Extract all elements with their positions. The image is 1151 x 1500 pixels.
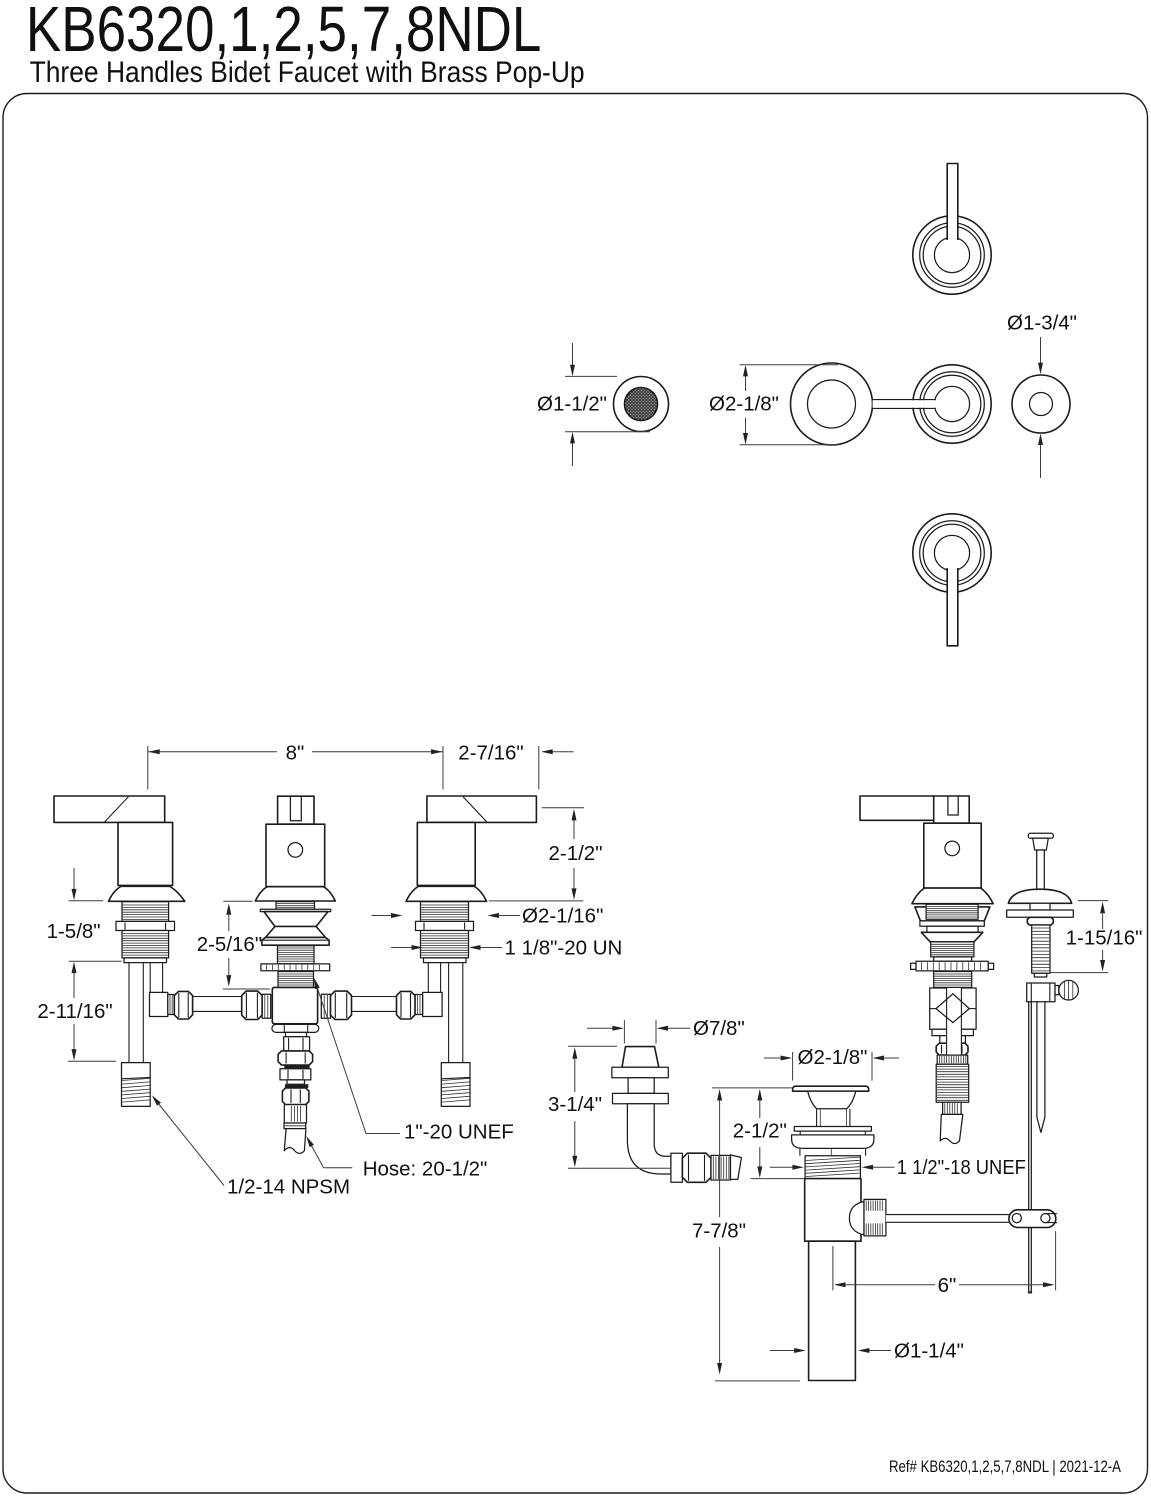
center threads below bell	[276, 902, 315, 910]
lift rod escutcheon plate	[1007, 910, 1074, 917]
svg-text:Ø1-3/4": Ø1-3/4"	[1007, 312, 1077, 335]
center cone upper	[264, 912, 328, 927]
detail slotted flange with tabs	[911, 963, 916, 969]
svg-text:Three Handles Bidet Faucet wit: Three Handles Bidet Faucet with Brass Po…	[30, 56, 585, 89]
left compression nut	[174, 991, 192, 1019]
top view: deck hole Ø1-3/4 ring	[1012, 375, 1070, 433]
dimension 2-1/2 right handle	[542, 807, 584, 809]
gasket ring dark 2	[285, 1084, 308, 1088]
coupling neck	[287, 1080, 305, 1084]
dimension 7-7/8	[717, 1089, 722, 1101]
left handle side outlet tube	[149, 963, 151, 993]
left handle lever	[54, 796, 165, 822]
detail washer	[920, 921, 984, 926]
drain threads 1-1/2-18	[805, 1156, 860, 1179]
pivot rod horizontal	[886, 1215, 1010, 1223]
svg-text:1 1/2"-18 UNEF: 1 1/2"-18 UNEF	[897, 1156, 1026, 1179]
svg-text:Ø2-1/16": Ø2-1/16"	[522, 905, 603, 928]
detail handle body	[924, 823, 981, 888]
tee body	[272, 987, 317, 1023]
drain neck	[799, 1148, 801, 1155]
top view: top handle (plan)	[913, 216, 991, 294]
dimension 8 inch	[147, 746, 149, 790]
drain knurled nut	[864, 1199, 886, 1236]
hose nut lower	[282, 1088, 309, 1105]
elbow hex nut	[682, 1153, 711, 1182]
detail knurled tip	[943, 1102, 962, 1114]
left handle elbow block	[150, 992, 168, 1016]
svg-text:2-7/16": 2-7/16"	[458, 742, 523, 765]
gasket ring dark	[284, 1065, 309, 1069]
right handle bell flange	[406, 886, 487, 901]
center valve body	[266, 824, 325, 887]
center threads mid	[278, 946, 315, 964]
dimension leader Ø1-1/2 bottom arrow	[572, 442, 574, 466]
top view: right handle (plan)	[913, 365, 991, 443]
dimension Ø1-1/4	[770, 1350, 795, 1352]
center valve index hole	[288, 843, 303, 858]
detail handle stem block	[934, 796, 970, 823]
left supply pipe to tee	[193, 996, 242, 998]
dimension Ø2-1/8 drain	[792, 1052, 794, 1081]
hose crimp band	[284, 1123, 306, 1129]
elbow bend tube	[627, 1104, 671, 1174]
left handle shank threads upper	[122, 902, 169, 922]
drain body	[805, 1179, 861, 1242]
pipe tee to right handle	[352, 996, 397, 998]
svg-text:6": 6"	[938, 1274, 957, 1297]
right handle shank threads lower	[421, 931, 469, 958]
center flare rim	[262, 937, 329, 945]
leader 1-20 UNEF	[316, 983, 401, 1134]
hose knurled collar	[284, 1105, 306, 1123]
right handle shank threads upper	[421, 902, 469, 922]
left handle supply tube	[128, 963, 130, 1063]
leader 1/2-14 NPSM	[154, 1098, 225, 1186]
lift rod hex nut	[1027, 917, 1053, 925]
dimension 2-5/16	[223, 900, 252, 902]
lift rod threaded section	[1032, 925, 1050, 973]
drain gasket	[792, 1135, 874, 1149]
detail valve stem tube	[947, 971, 962, 1059]
dimension Ø7/8	[623, 1020, 625, 1044]
leader hose 20-1/2	[308, 1139, 353, 1168]
tee outlet neck	[286, 1032, 307, 1036]
center slotted flange	[261, 964, 330, 971]
dimension 2-1/2 drain	[712, 1087, 792, 1089]
detail shank threads upper	[926, 904, 978, 919]
tee right nut	[331, 991, 352, 1019]
detail valve diamond port	[936, 994, 969, 1023]
center bell flange	[255, 887, 335, 901]
detail collar	[934, 957, 972, 961]
linkage stadium	[1009, 1210, 1056, 1228]
svg-text:1/2-14 NPSM: 1/2-14 NPSM	[227, 1176, 350, 1199]
svg-text:2-5/16": 2-5/16"	[197, 933, 262, 956]
right handle supply threaded end	[441, 1063, 470, 1107]
dimension 1 1/2-18 UNEF	[770, 1166, 793, 1168]
left handle locknut	[116, 921, 175, 930]
detail fine thread collar	[937, 1055, 968, 1064]
left handle shank collar	[124, 958, 167, 963]
lift rod escutcheon neck	[1030, 903, 1050, 910]
left handle supply threaded end 1/2-14	[122, 1063, 151, 1107]
detail threaded adapter	[936, 1064, 969, 1102]
svg-text:2-1/2": 2-1/2"	[733, 1120, 787, 1143]
svg-text:1"-20 UNEF: 1"-20 UNEF	[404, 1121, 514, 1144]
drain ball dome	[849, 1202, 864, 1235]
right handle body	[417, 822, 475, 885]
elbow neck	[628, 1078, 654, 1094]
center supply hose	[284, 1129, 306, 1154]
hose coupling mid	[280, 1069, 311, 1080]
left handle bell flange	[109, 886, 185, 901]
dimension 2-11/16	[72, 962, 77, 974]
detail handle index hole	[945, 841, 960, 856]
right handle lever	[427, 796, 537, 822]
center thin washer band	[260, 909, 330, 911]
svg-text:Hose: 20-1/2": Hose: 20-1/2"	[363, 1158, 488, 1181]
clamp thumbscrew ball	[1059, 980, 1079, 1000]
svg-text:8": 8"	[286, 742, 305, 765]
detail threads low	[934, 972, 972, 988]
dimension leader Ø1-1/2 top arrow	[572, 343, 574, 366]
dimension 1-15/16	[1078, 900, 1108, 902]
top view: spout hub escutcheon	[791, 363, 873, 445]
top view: aerator outer circle	[614, 377, 669, 432]
top view: spout bar	[873, 400, 936, 407]
dimension 1 1/8-20 UN	[391, 947, 413, 949]
elbow flange 1	[612, 1067, 668, 1078]
drain tailpiece	[809, 1241, 856, 1380]
pivot strap	[1037, 1002, 1045, 1133]
detail valve body	[930, 988, 976, 1029]
svg-text:1-5/8": 1-5/8"	[47, 920, 101, 943]
left compression ferrule	[168, 995, 175, 1015]
hose coupling upper	[284, 1037, 310, 1051]
detail winged locknut	[915, 907, 990, 921]
dimension Ø1-3/4 arrows	[1040, 337, 1042, 364]
svg-text:Ø1-1/2": Ø1-1/2"	[537, 393, 607, 416]
svg-text:1-15/16": 1-15/16"	[1066, 927, 1143, 950]
svg-text:Ø1-1/4": Ø1-1/4"	[894, 1340, 964, 1363]
dimension 6 inch	[832, 1246, 834, 1290]
rod clamp bracket	[1027, 983, 1055, 1002]
svg-text:Ø2-1/8": Ø2-1/8"	[798, 1046, 868, 1069]
detail cone	[921, 932, 983, 942]
svg-text:7-7/8": 7-7/8"	[692, 1220, 746, 1243]
detail nut	[936, 1043, 968, 1055]
drain stopper stem	[816, 1109, 818, 1127]
lift rod tip	[1034, 973, 1046, 977]
svg-text:3-1/4": 3-1/4"	[548, 1093, 602, 1116]
svg-text:Ø7/8": Ø7/8"	[693, 1017, 745, 1040]
top view: bottom handle (plan)	[913, 514, 991, 592]
detail flange 2	[927, 926, 978, 932]
tee left nut	[242, 991, 262, 1019]
detail handle lever	[860, 796, 934, 820]
elbow top cap	[622, 1047, 659, 1068]
dimension 3-1/4	[568, 1045, 617, 1047]
dimension Ø2-1/8 (plan)	[745, 368, 747, 391]
dimension 1-5/8	[73, 868, 75, 890]
detail threads mid	[931, 942, 974, 957]
detail bell flange	[912, 888, 993, 904]
detail bottom washer	[932, 1029, 973, 1035]
svg-text:Ref# KB6320,1,2,5,7,8NDL | 202: Ref# KB6320,1,2,5,7,8NDL | 2021-12-A	[889, 1457, 1122, 1476]
left handle shank threads lower	[122, 931, 169, 958]
center threads low 1-20 UNEF	[278, 972, 314, 988]
right handle elbow block	[423, 992, 443, 1016]
left handle body	[118, 822, 173, 885]
hose coupling hex nut	[278, 1051, 313, 1065]
braided hose section	[711, 1155, 731, 1180]
elbow flange 2	[613, 1093, 669, 1103]
right handle shank collar	[424, 958, 467, 963]
dimension ext lines Ø1-1/2	[565, 375, 617, 377]
svg-text:2-11/16": 2-11/16"	[37, 1000, 112, 1023]
center valve stem	[278, 796, 314, 824]
drain washer	[794, 1127, 871, 1132]
hose break end	[731, 1155, 742, 1180]
right handle side outlet tube	[427, 963, 429, 993]
top view: aerator mesh face	[624, 387, 657, 420]
right compression nut	[397, 991, 416, 1019]
lift rod escutcheon dome	[1008, 889, 1071, 903]
elbow compression ring	[671, 1153, 683, 1182]
detail hose	[940, 1114, 963, 1143]
svg-text:2-1/2": 2-1/2"	[548, 842, 602, 865]
detail neck	[940, 1036, 966, 1044]
svg-text:Ø2-1/8": Ø2-1/8"	[709, 393, 779, 416]
tee left ferrule	[262, 994, 271, 1018]
lift rod knob	[1028, 833, 1053, 838]
lift rod upper	[1037, 850, 1045, 891]
right handle locknut	[416, 921, 474, 930]
svg-text:1 1/8"-20 UN: 1 1/8"-20 UN	[505, 937, 623, 960]
dimension 2-7/16	[538, 746, 540, 790]
right handle supply tube	[448, 963, 450, 1063]
tee right ferrule	[321, 994, 330, 1018]
dimension Ø2-1/16	[372, 915, 393, 917]
center cone lower flare	[266, 927, 326, 938]
right compression ferrule	[415, 995, 423, 1015]
tee bottom wing flange	[272, 1024, 319, 1032]
lift wire rod	[1029, 1002, 1032, 1293]
drain stopper flange	[793, 1086, 869, 1091]
drain stopper dome	[808, 1091, 856, 1109]
